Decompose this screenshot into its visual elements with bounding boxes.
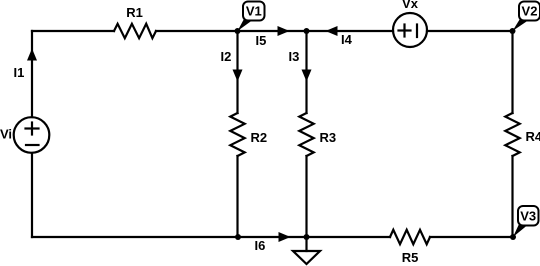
svg-text:I2: I2 bbox=[221, 49, 232, 64]
svg-text:V3: V3 bbox=[520, 209, 536, 224]
svg-text:I1: I1 bbox=[14, 65, 25, 80]
svg-text:I6: I6 bbox=[255, 238, 266, 253]
svg-text:I4: I4 bbox=[341, 32, 353, 47]
svg-text:R3: R3 bbox=[320, 130, 337, 145]
svg-text:V1: V1 bbox=[246, 4, 262, 19]
svg-text:R2: R2 bbox=[251, 130, 268, 145]
svg-text:Vi: Vi bbox=[0, 127, 12, 142]
svg-text:R5: R5 bbox=[402, 250, 419, 265]
svg-text:R1: R1 bbox=[126, 5, 143, 20]
svg-text:I3: I3 bbox=[289, 49, 300, 64]
svg-text:R4: R4 bbox=[526, 129, 540, 144]
svg-text:V2: V2 bbox=[522, 4, 538, 19]
svg-text:Vx: Vx bbox=[402, 0, 419, 11]
svg-text:I5: I5 bbox=[256, 33, 267, 48]
